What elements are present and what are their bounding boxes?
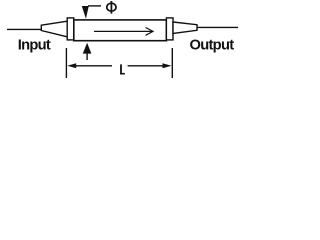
direction arrow inside body [94, 28, 153, 36]
phi leader down arrowhead [82, 6, 89, 19]
label phi [107, 1, 116, 14]
dimension right arrow [128, 63, 172, 68]
right fiber boot cone [173, 22, 197, 33]
svg-text:Input: Input [18, 37, 51, 53]
dimension left arrow [67, 63, 112, 68]
label L [120, 64, 125, 74]
left extension line [65, 48, 67, 78]
input fiber wire [7, 28, 42, 30]
left end cap [67, 18, 74, 40]
left fiber boot cone [41, 21, 67, 37]
diameter up arrowhead [84, 44, 91, 53]
output fiber wire [197, 26, 238, 28]
diameter arrow shaft [86, 53, 88, 60]
right end cap [166, 18, 173, 40]
phi leader line [88, 5, 101, 7]
component body [74, 20, 167, 41]
svg-text:Output: Output [190, 38, 235, 54]
right extension line [171, 48, 173, 78]
